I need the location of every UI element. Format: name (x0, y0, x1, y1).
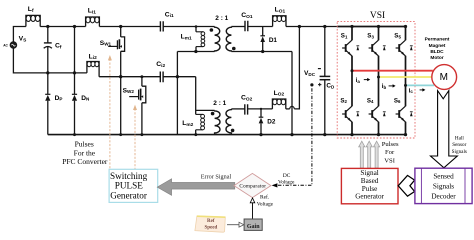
switch Sw1 (100, 27, 125, 77)
svg-text:Voltage: Voltage (257, 202, 274, 208)
label Cd minus (318, 68, 321, 70)
inductor Lf (26, 6, 40, 26)
diode D2 (259, 109, 276, 135)
error signal arrow (157, 179, 235, 196)
wire rail A Li1 to Ci1 (99, 26, 160, 28)
diode Dp (45, 73, 62, 135)
wire AC bottom (13, 48, 87, 73)
svg-text:Magnet: Magnet (429, 43, 446, 49)
node D2 bottom (259, 133, 262, 136)
wire AC to rail A (13, 27, 26, 42)
diode D1 (260, 27, 277, 52)
wire rail A Lo1 to VSI (286, 26, 337, 28)
svg-text:S4: S4 (367, 97, 374, 104)
diode Dn (72, 73, 90, 135)
label PMBLDC motor (425, 37, 450, 62)
label ref voltage (257, 193, 274, 207)
node D2 top (260, 108, 262, 110)
svg-text:PULSE: PULSE (115, 181, 143, 191)
node S1 top (350, 25, 353, 28)
svg-text:S3: S3 (367, 33, 374, 40)
svg-text:Signals: Signals (452, 149, 467, 155)
wire secondary return y51 (231, 51, 292, 53)
svg-text:Comparator: Comparator (239, 183, 266, 189)
capacitor Co1 (241, 12, 253, 31)
phase line b (379, 76, 432, 78)
svg-text:D2: D2 (267, 118, 276, 125)
wire T1 secondary top to Co1 (231, 26, 245, 28)
svg-text:2 : 1: 2 : 1 (215, 15, 228, 22)
decoder to generator arrow (398, 175, 414, 196)
svg-text:D1: D1 (269, 37, 278, 44)
node phase b (377, 76, 380, 79)
svg-text:Decoder: Decoder (431, 192, 456, 200)
wire Lo2 output up to rail A (294, 27, 299, 109)
node return bottom (290, 133, 293, 136)
ref voltage line (252, 203, 254, 219)
svg-text:Speed: Speed (205, 226, 218, 231)
IGBT S1 leg (351, 27, 353, 135)
inductor Lo1 (273, 7, 286, 27)
node Dn junction (73, 71, 76, 74)
inductor Li1 (86, 8, 100, 27)
node phase c (404, 84, 407, 87)
node Dn bottom (73, 133, 76, 136)
node phase a (351, 69, 354, 72)
svg-text:Ref: Ref (207, 219, 215, 224)
svg-text:M: M (440, 72, 448, 83)
node rail B crossover (176, 75, 179, 78)
IGBT S5 leg (405, 27, 407, 135)
transformer T2 primary (215, 110, 220, 134)
node T1 primary dot (210, 28, 214, 32)
node S6 bottom (404, 133, 407, 136)
node Lm2 bottom (194, 133, 197, 136)
phase line c (406, 84, 435, 86)
wire rail B right (163, 76, 196, 78)
node T2 primary dot (211, 112, 215, 116)
svg-text:SW2: SW2 (123, 87, 135, 94)
IGBT S5 (394, 33, 412, 57)
capacitor Ci2 (156, 61, 165, 82)
gate pulse line Sw2 (134, 109, 136, 169)
label pulses for PFC (62, 140, 108, 167)
transformer T2 secondary (226, 109, 231, 135)
svg-text:Voltage: Voltage (278, 180, 295, 186)
wire VSI top rail (337, 26, 406, 28)
svg-text:S1: S1 (341, 33, 348, 40)
transformer T1 primary (215, 27, 220, 52)
label ia (356, 77, 371, 84)
node S3 top (377, 25, 380, 28)
svg-text:Signal: Signal (360, 169, 378, 177)
VSI pulse arrow 2 (366, 141, 372, 168)
transformer T1 secondary (226, 27, 231, 52)
svg-text:S6: S6 (394, 97, 401, 104)
IGBT S2 (340, 97, 359, 122)
svg-text:Ref.: Ref. (260, 193, 269, 200)
AC source Vs (3, 36, 27, 49)
wire T2 primary top (196, 109, 215, 111)
wire T2 secondary top to Co2 (231, 108, 244, 110)
node Lm1 top tap (195, 25, 198, 28)
capacitor Cd (320, 27, 335, 135)
IGBT S3 (367, 33, 385, 57)
svg-text:CD: CD (326, 83, 335, 90)
svg-text:AC: AC (3, 44, 8, 48)
node D1 bottom (261, 50, 264, 53)
block switching pulse generator (109, 169, 158, 202)
svg-text:ic: ic (409, 87, 414, 94)
svg-text:For: For (385, 149, 395, 156)
capacitor Ci1 (160, 11, 174, 31)
svg-text:DN: DN (81, 95, 90, 102)
node T2 secondary dot (231, 129, 235, 133)
hall sensor arrow (431, 91, 458, 168)
wire output1 return vertical (291, 52, 293, 135)
svg-text:Hall: Hall (455, 136, 464, 142)
svg-text:Error Signal: Error Signal (201, 174, 232, 181)
wire rail B left (99, 76, 160, 78)
svg-text:Pulse: Pulse (362, 185, 378, 193)
svg-text:For the: For the (74, 148, 96, 157)
IGBT S6 (394, 97, 413, 122)
svg-text:Based: Based (361, 177, 379, 185)
svg-text:Sensor: Sensor (452, 142, 466, 148)
node S5 top (404, 25, 407, 28)
svg-text:ib: ib (382, 83, 387, 90)
switch Sw2 (123, 77, 146, 135)
svg-text:Generator: Generator (110, 191, 147, 201)
comparator (234, 173, 271, 197)
node Sw2 drain (140, 75, 143, 78)
IGBT S3 leg (378, 27, 380, 135)
wire Dn trunk upper (74, 27, 76, 73)
svg-text:BLDC: BLDC (430, 49, 444, 55)
node rail A / Dn trunk (73, 25, 76, 28)
svg-text:DC: DC (283, 173, 291, 179)
svg-text:2 : 1: 2 : 1 (213, 100, 226, 107)
label pulses for VSI (382, 141, 399, 164)
wire rail A Ci1 to T1 (163, 26, 214, 28)
node S2 bottom (350, 133, 353, 136)
block sensed signals decoder (415, 168, 472, 203)
VSI pulse arrow 1 (359, 141, 365, 168)
node Sw1 drain (119, 25, 122, 28)
svg-text:S2: S2 (340, 97, 347, 104)
node Cd bottom (323, 133, 326, 136)
svg-text:Sensed: Sensed (433, 173, 454, 181)
label ic (409, 87, 426, 94)
VSI pulse arrow 3 (374, 141, 380, 168)
wire rail A Lf to Li1 (40, 26, 85, 28)
VSI dashed enclosure (337, 22, 415, 138)
node Sw1 rail B (119, 75, 122, 78)
svg-text:Pulses: Pulses (382, 141, 399, 148)
node Sw2 bottom (140, 133, 143, 136)
capacitor Cf (44, 27, 62, 73)
wire primary return y51 (177, 51, 214, 53)
svg-text:Switching: Switching (110, 171, 148, 181)
svg-text:Generator: Generator (355, 193, 384, 201)
svg-text:VSI: VSI (370, 11, 385, 21)
block ref speed (195, 216, 225, 232)
wire crossover vertical (176, 52, 178, 135)
wire bottom rail (48, 134, 406, 136)
dc voltage sense line (277, 88, 312, 185)
wire Co2 to Lo2 (248, 108, 273, 110)
wire Lo2 to hop (286, 108, 290, 110)
ref speed to gain arrow (227, 224, 239, 226)
svg-text:Motor: Motor (430, 55, 443, 61)
svg-text:S5: S5 (394, 33, 401, 40)
wire Sw1 leg to bottom rail (120, 77, 122, 135)
label ib (382, 83, 396, 90)
wire Co1 to Lo1 (248, 26, 273, 28)
node Cd top (323, 25, 326, 28)
node output join (298, 25, 301, 28)
wire hop over crossover (290, 106, 295, 108)
svg-text:SW1: SW1 (100, 40, 112, 47)
svg-text:Permanent: Permanent (425, 37, 450, 43)
IGBT S1 (341, 33, 359, 57)
svg-text:PFC Converter: PFC Converter (62, 157, 108, 166)
node Lm1 bottom (194, 50, 197, 53)
node S4 bottom (377, 133, 380, 136)
svg-text:Gain: Gain (247, 224, 260, 230)
node Vdc sense point (310, 83, 313, 86)
node Cf/Dp junction (46, 71, 49, 74)
svg-text:VDC: VDC (304, 70, 316, 77)
block gain (244, 219, 262, 230)
inductor Lm2 (182, 77, 204, 135)
inductor Lm1 (181, 27, 205, 52)
gate pulse line Sw1 (109, 59, 111, 169)
block signal based pulse generator (341, 168, 398, 203)
motor M (432, 65, 457, 90)
IGBT S4 (367, 97, 386, 122)
svg-text:VSI: VSI (384, 158, 395, 165)
label Cd plus (318, 83, 321, 86)
node Sw1 bottom (119, 133, 122, 136)
label hall sensor signals (452, 136, 467, 155)
svg-text:ia: ia (356, 77, 361, 84)
inductor Li2 (87, 53, 99, 76)
inductor Lo2 (272, 90, 285, 109)
node T1 secondary dot (232, 47, 236, 51)
svg-text:Pulses: Pulses (75, 140, 94, 149)
capacitor Co2 (241, 95, 253, 115)
label dc voltage (278, 173, 295, 186)
phase line a (352, 70, 433, 72)
svg-text:Signals: Signals (433, 182, 454, 190)
svg-text:DP: DP (55, 95, 63, 102)
node Cf tap (46, 25, 49, 28)
